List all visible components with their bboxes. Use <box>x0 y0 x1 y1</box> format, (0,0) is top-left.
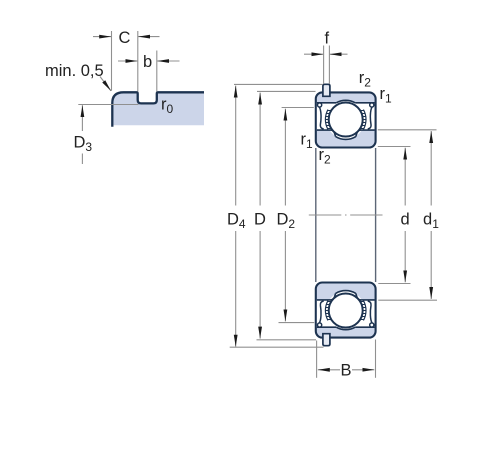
D4 extension bottom <box>230 346 324 348</box>
bore line left <box>315 148 317 282</box>
upper bearing half section <box>316 84 376 147</box>
svg-text:D4: D4 <box>227 211 246 232</box>
D extension top <box>257 90 316 92</box>
d1 extension bottom <box>378 299 437 301</box>
D4 extension top <box>234 83 323 85</box>
svg-text:d1: d1 <box>423 211 439 232</box>
outer ring section fill <box>112 92 204 125</box>
svg-text:r2: r2 <box>319 146 332 167</box>
extension line C left <box>111 31 113 91</box>
seal bead right <box>370 103 374 107</box>
B extension right <box>375 340 377 378</box>
svg-text:d: d <box>401 211 410 229</box>
inner ring shoulder boundary <box>317 130 375 137</box>
leader arrow min 0,5 <box>100 77 111 91</box>
dimension D line lower <box>259 231 261 339</box>
cavity white <box>317 103 375 137</box>
dimension d line lower <box>404 231 406 282</box>
dimension B right arrow <box>352 369 374 371</box>
dimension C right arrow <box>138 36 159 38</box>
ball <box>329 103 363 137</box>
D3 extension line <box>78 104 138 106</box>
extension line groove left <box>137 31 139 92</box>
lower bearing half section (mirrored) <box>316 283 376 346</box>
outer ring bore boundary <box>317 102 375 104</box>
snap ring (f tab) <box>323 84 330 96</box>
cage right arc <box>363 110 366 130</box>
cage right rungs <box>360 111 366 129</box>
seal lip left <box>320 107 324 129</box>
D2 extension top <box>282 107 314 109</box>
outer ring section outline (top edge, left face, groove) <box>112 92 204 127</box>
D2 extension bottom <box>279 322 315 324</box>
svg-text:b: b <box>143 53 152 71</box>
center line <box>309 214 383 216</box>
B extension left <box>316 341 318 378</box>
ring block silhouette <box>316 92 376 147</box>
dimension f right arrow <box>330 53 348 55</box>
dimension B left arrow <box>318 369 340 371</box>
svg-text:f: f <box>325 30 330 48</box>
dimension D3 stub below label <box>81 154 83 165</box>
dimension D2 line upper <box>284 109 286 206</box>
seal bead left <box>318 103 322 107</box>
bore line right <box>375 148 377 282</box>
dimension C left arrow <box>93 36 111 38</box>
d extension bottom <box>378 283 410 285</box>
svg-text:C: C <box>119 29 131 47</box>
d extension top <box>378 146 411 148</box>
svg-text:D2: D2 <box>277 211 296 232</box>
svg-text:D3: D3 <box>74 134 93 155</box>
dimension D3 line with arrow <box>81 105 83 131</box>
svg-text:B: B <box>341 362 352 380</box>
extension line groove right <box>156 51 158 92</box>
dimension d1 line upper <box>430 131 432 206</box>
svg-text:r1: r1 <box>301 131 314 152</box>
dimension f left arrow <box>304 53 323 55</box>
dimension b left arrow <box>118 60 138 62</box>
dimension D2 line lower <box>284 231 286 321</box>
svg-text:D: D <box>254 211 266 229</box>
outer raceway arc <box>336 100 355 103</box>
svg-text:r2: r2 <box>359 69 372 90</box>
dimension b right arrow <box>157 60 179 62</box>
d1 extension top <box>378 129 437 131</box>
inner raceway arc <box>336 137 356 140</box>
dimension d line upper <box>404 148 406 206</box>
seal lip right <box>368 107 372 129</box>
svg-text:min. 0,5: min. 0,5 <box>45 62 104 80</box>
svg-text:r1: r1 <box>380 85 393 106</box>
cage left rungs <box>325 111 331 129</box>
dimension D4 line upper <box>235 86 237 206</box>
dimension D4 line lower <box>235 231 237 347</box>
dimension d1 line lower <box>430 231 432 299</box>
D extension bottom <box>257 339 317 341</box>
f extension lines <box>323 46 325 85</box>
dimension D line upper <box>259 93 261 206</box>
cage left arc <box>325 110 328 130</box>
